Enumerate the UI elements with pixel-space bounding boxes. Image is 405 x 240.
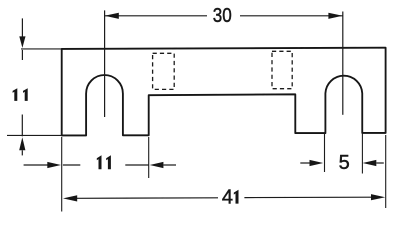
dim 30: left arrow [105,13,119,19]
dim 11 left: label digit 2 [23,88,28,101]
dim 11 left: upper arrow [21,18,23,36]
dim 41: label digit 1 [234,190,239,204]
dim 11 bottom: label digit 1 [97,155,102,169]
dim 41: right arrow [371,194,385,200]
right hidden contact (dashed) [272,51,292,88]
svg-text:4: 4 [222,186,233,208]
dim 41: left arrow [63,195,77,201]
dim 41: extension line right [385,135,387,208]
left slot centerline [104,10,106,117]
dim 11 bottom: extension lines [61,137,63,212]
dim 11 left: lower arrow [21,115,23,137]
dim 5: left arrow [300,162,310,164]
dim 11 bottom: label digit 2 [106,155,111,169]
fuse body outline [62,48,386,136]
dim 5: extension lines [324,134,326,173]
dim 30: line [105,15,207,17]
dim 11 bottom: left arrow [24,164,48,166]
svg-text:30: 30 [213,5,232,27]
svg-text:5: 5 [339,152,350,174]
dim 11 left: label digit 1 [13,88,18,101]
dim 41: line [77,197,219,200]
dim 5: right arrow [363,160,377,166]
left hidden contact (dashed) [153,53,175,89]
dim 11 bottom: right arrow [125,164,149,166]
right slot centerline [342,12,344,115]
dim 11 left: extension lines [21,48,62,50]
dim 30: right arrow [328,13,342,19]
